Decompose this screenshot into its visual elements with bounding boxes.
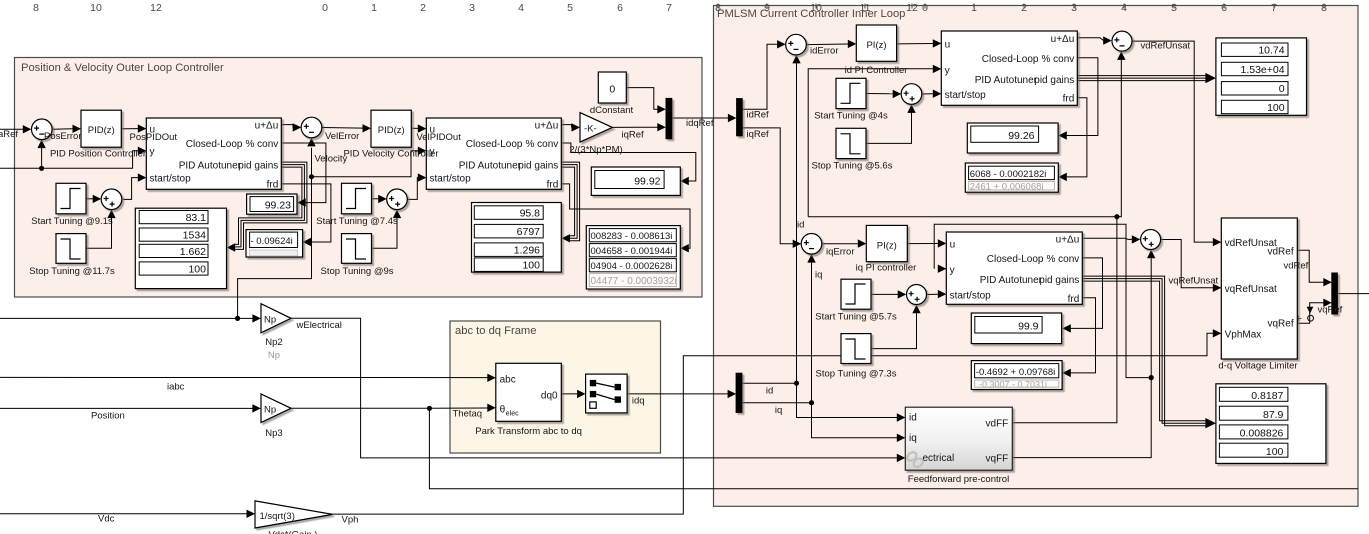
wire vdFF net to Sum7 and Autotuner3 y branch: [808, 51, 1125, 422]
block PID Autotuner 4: [946, 232, 1082, 305]
svg-text:1.662: 1.662: [180, 246, 206, 258]
svg-text:VphMax: VphMax: [1225, 329, 1262, 340]
svg-text:008283 - 0.008613i: 008283 - 0.008613i: [591, 231, 673, 242]
svg-text:aRef: aRef: [0, 129, 18, 140]
sum Sum9 vq: [1141, 230, 1161, 250]
svg-text:1.53e+04: 1.53e+04: [1241, 64, 1285, 76]
wire Sum6 to Autotuner3 start/stop: [922, 90, 942, 98]
wire Autotuner3 y input: [808, 65, 941, 217]
wire Thetaq Np3 to Park Transform: [291, 404, 496, 412]
display PID gains 2: [472, 203, 562, 273]
svg-text:0: 0: [609, 84, 615, 96]
wire wElectrical Np2 to Feedforward: [291, 318, 905, 462]
svg-text:Position & Velocity Outer Loop: Position & Velocity Outer Loop Controlle…: [21, 62, 224, 74]
svg-text:id PI Controller: id PI Controller: [845, 65, 908, 76]
svg-text:4: 4: [518, 2, 524, 14]
svg-text:vqRef: vqRef: [1267, 318, 1293, 329]
svg-text:1/sqrt(3): 1/sqrt(3): [260, 511, 295, 522]
svg-text:7: 7: [666, 2, 672, 14]
svg-text:Np2: Np2: [265, 337, 282, 348]
display PID gains 1: [135, 208, 226, 288]
svg-text:idRef: idRef: [747, 110, 770, 121]
svg-text:pid gains: pid gains: [518, 161, 558, 172]
svg-text:VelPIDOut: VelPIDOut: [417, 132, 462, 143]
wire PID Position Controller to Autotuner1 u: [121, 124, 146, 132]
svg-text:Stop Tuning @9s: Stop Tuning @9s: [320, 266, 393, 277]
svg-text:vdFF: vdFF: [986, 418, 1009, 429]
svg-text:95.8: 95.8: [520, 208, 541, 220]
step StartTuning9.1: [56, 183, 86, 214]
demux Demux1: [737, 99, 743, 136]
svg-text:0: 0: [1279, 83, 1285, 95]
svg-text:6: 6: [617, 2, 623, 14]
svg-text:PosPIDOut: PosPIDOut: [130, 132, 178, 143]
wire StopTuning11.7 to Sum3: [86, 210, 116, 249]
svg-text:Stop Tuning @5.6s: Stop Tuning @5.6s: [812, 161, 893, 172]
wire vqRef Limiter to Mux2: [1296, 299, 1332, 325]
display vd gains: [1216, 38, 1307, 115]
wire Autotuner1 pid gains bus to Display gains1: [227, 162, 307, 252]
svg-text:vqRefUnsat: vqRefUnsat: [1225, 284, 1277, 295]
svg-text:vdRef: vdRef: [1284, 261, 1309, 272]
svg-text:83.1: 83.1: [186, 212, 207, 224]
svg-text:idError: idError: [810, 46, 839, 57]
svg-text:y: y: [945, 65, 950, 76]
svg-text:5: 5: [567, 2, 573, 14]
wire Sum1 to PID Position Controller: [52, 125, 81, 133]
svg-text:-0.4692 + 0.09768i: -0.4692 + 0.09768i: [976, 367, 1056, 378]
step StartTuning4: [836, 78, 866, 108]
svg-text:y: y: [950, 265, 955, 276]
svg-text:3: 3: [469, 2, 475, 14]
block id PI Controller PI(z): [856, 25, 896, 61]
svg-text:Feedforward pre-control: Feedforward pre-control: [908, 474, 1009, 485]
wire Autotuner4 u+du to Sum9: [1082, 235, 1140, 243]
wire Mux2 output to edge: [1337, 293, 1369, 295]
wire Position input to Np3: [0, 404, 261, 412]
display frd 0.09624i: [246, 230, 303, 257]
svg-text:04904 - 0.0002628i: 04904 - 0.0002628i: [591, 261, 673, 272]
svg-text:idq: idq: [632, 396, 645, 407]
svg-text:elec: elec: [506, 411, 519, 418]
svg-text:PID Position Controller: PID Position Controller: [50, 149, 146, 160]
wire Velocity input to Np2: [0, 314, 261, 322]
svg-text:iqRef: iqRef: [747, 129, 770, 140]
svg-text:% conv: % conv: [246, 139, 279, 150]
svg-text:Start Tuning @4s: Start Tuning @4s: [814, 111, 888, 122]
wire StopTuning7.3 to Sum8: [871, 305, 921, 349]
svg-text:0.008826: 0.008826: [1240, 428, 1284, 440]
svg-text:frd: frd: [547, 180, 559, 191]
svg-text:frd: frd: [1063, 94, 1075, 105]
svg-text:start/stop: start/stop: [950, 290, 992, 301]
svg-text:87.9: 87.9: [1263, 409, 1284, 421]
display frd2 complex: [586, 226, 680, 289]
svg-text:Np: Np: [268, 350, 280, 361]
svg-text:id: id: [766, 385, 773, 396]
svg-text:iq: iq: [815, 270, 822, 281]
wire StartTuning4 to Sum6: [866, 90, 901, 98]
sum Sum8 start/stop 4: [907, 285, 927, 305]
svg-text:Park Transform abc to dq: Park Transform abc to dq: [475, 426, 582, 437]
svg-text:start/stop: start/stop: [150, 174, 192, 185]
svg-text:y: y: [150, 147, 155, 158]
wire Autotuner2 pid gains bus to Display gains2: [561, 162, 579, 242]
svg-text:% conv: % conv: [1047, 254, 1080, 265]
svg-text:PID Velocity Controller: PID Velocity Controller: [343, 149, 438, 160]
ruler numbers top: [33, 2, 1327, 14]
display 99.9: [971, 313, 1061, 344]
wire Autotuner4 frd to Display frd4: [1062, 298, 1095, 377]
display vq gains: [1216, 384, 1326, 464]
svg-text:Np: Np: [264, 315, 276, 326]
display frd3 complex: [965, 163, 1058, 193]
sum Sum3 start/stop 1: [101, 189, 122, 210]
wire Sum4 to Autotuner2 start/stop: [407, 173, 426, 199]
gain Np2: [261, 304, 291, 333]
wire Autotuner3 frd to Display frd3: [1058, 98, 1087, 181]
wire Sum2 to PID Velocity Controller: [322, 124, 371, 132]
svg-text:iabc: iabc: [167, 382, 185, 393]
svg-text:abc: abc: [500, 374, 516, 385]
svg-text:Closed-Loop: Closed-Loop: [186, 139, 243, 150]
svg-text:u+Δu: u+Δu: [255, 121, 279, 132]
mux Mux1: [666, 98, 672, 138]
wire vqFF net riser to Sum9: [1012, 250, 1155, 458]
wire StopTuning5.6 to Sum6: [866, 104, 916, 143]
wire id measurement riser to Sum5: [792, 55, 800, 386]
gain Np3: [261, 394, 291, 423]
svg-text:100: 100: [1267, 102, 1285, 114]
display 99.23: [247, 194, 297, 214]
svg-text:Closed-Loop: Closed-Loop: [466, 139, 523, 150]
demux Demux2: [736, 373, 742, 412]
svg-text:PI(z): PI(z): [866, 40, 886, 51]
svg-text:pid gains: pid gains: [1034, 75, 1074, 86]
svg-text:% conv: % conv: [1042, 54, 1075, 65]
svg-text:idqRef: idqRef: [686, 118, 714, 129]
svg-text:iqError: iqError: [826, 247, 855, 258]
wire iq PI controller to Autotuner4 u: [907, 239, 946, 247]
svg-text:99.92: 99.92: [634, 176, 660, 188]
svg-text:-K-: -K-: [584, 123, 597, 134]
svg-text:1: 1: [371, 2, 377, 14]
panel area PMLSM Current Controller Inner Loop: [714, 6, 1359, 507]
svg-text:100: 100: [522, 260, 540, 272]
svg-text:99.9: 99.9: [1018, 321, 1039, 333]
panel area Position and Velocity Outer Loop Controller: [15, 58, 703, 298]
svg-text:PID Autotuner: PID Autotuner: [459, 161, 522, 172]
svg-text:2461 + 0.006068i: 2461 + 0.006068i: [970, 182, 1044, 193]
svg-text:id: id: [797, 219, 804, 230]
svg-text:pid gains: pid gains: [1039, 275, 1079, 286]
wire Autotuner1 frd to Display frd1: [281, 184, 331, 246]
svg-text:vqRefUnsat: vqRefUnsat: [1169, 276, 1219, 287]
svg-text:PosError: PosError: [44, 131, 81, 142]
sum Sum7 vd: [1112, 31, 1132, 51]
svg-text:Thetaq: Thetaq: [453, 408, 483, 419]
wire Vdc input to Gain 1/sqrt(3): [0, 510, 255, 518]
svg-text:start/stop: start/stop: [430, 174, 472, 185]
svg-text:0: 0: [322, 2, 328, 14]
wire Vph to Limiter VphMax: [333, 329, 1222, 514]
wire StopTuning9 to Sum4: [372, 210, 402, 249]
svg-text:PID(z): PID(z): [88, 125, 115, 136]
svg-text:Stop Tuning @11.7s: Stop Tuning @11.7s: [29, 266, 115, 277]
svg-text:u+Δu: u+Δu: [535, 121, 559, 132]
wire Autotuner3 u+du to Sum7: [1077, 36, 1111, 44]
svg-text:frd: frd: [1068, 294, 1080, 305]
wire Autotuner2 frd to Display frd2: [561, 184, 690, 253]
wire Autotuner2 pcconv to Display 99.92: [561, 143, 696, 185]
svg-text:99.23: 99.23: [265, 199, 291, 211]
svg-text:vqRef: vqRef: [1318, 305, 1343, 316]
svg-text:6797: 6797: [517, 226, 541, 238]
sum Sum4 start/stop 2: [387, 189, 408, 210]
svg-text:2: 2: [420, 2, 426, 14]
svg-text:Closed-Loop: Closed-Loop: [982, 54, 1039, 65]
wire StartTuning9.1 to Sum3: [86, 195, 101, 203]
svg-text:Np: Np: [264, 405, 276, 416]
wire dq0 Park to Selector: [561, 390, 585, 398]
wire Gain -K- to Mux1: [612, 123, 665, 131]
svg-text:id: id: [909, 413, 917, 424]
svg-text:Vph: Vph: [342, 515, 359, 526]
svg-text:004658 - 0.001944i: 004658 - 0.001944i: [591, 246, 673, 257]
svg-text:8: 8: [33, 2, 39, 14]
sum Sum5 idError: [786, 34, 807, 55]
wire Autotuner3 pid gains bus to Display gains3: [1077, 73, 1216, 83]
svg-text:- 0.09624i: - 0.09624i: [251, 236, 293, 247]
svg-text:Start Tuning @7.4s: Start Tuning @7.4s: [316, 216, 398, 227]
block dConstant: [598, 72, 626, 103]
svg-text:1.296: 1.296: [514, 245, 540, 257]
svg-text:iq PI controller: iq PI controller: [856, 263, 917, 274]
block Park Transform abc to dq: [496, 363, 562, 421]
svg-text:PID Autotuner: PID Autotuner: [179, 161, 242, 172]
svg-text:PID Autotuner: PID Autotuner: [975, 75, 1038, 86]
svg-text:10: 10: [90, 2, 102, 14]
wire Sum5 to id PI Controller: [806, 40, 856, 48]
sum Sum10 iqError: [801, 234, 822, 255]
svg-text:VelError: VelError: [325, 131, 359, 142]
step StopTuning5.6: [836, 128, 866, 158]
block Feedforward pre-control: [905, 407, 1012, 470]
svg-text:6068 - 0.0002182i: 6068 - 0.0002182i: [970, 169, 1047, 180]
wire dConstant to Mux1: [626, 88, 666, 114]
display 99.92: [591, 167, 680, 195]
ruler tick marks: [718, 4, 1324, 9]
svg-text:100: 100: [1266, 446, 1284, 458]
svg-text:dConstant: dConstant: [590, 105, 634, 116]
panel area abc to dq Frame: [450, 321, 661, 453]
svg-text:Vdc: Vdc: [98, 514, 115, 525]
svg-text:ectrical: ectrical: [923, 453, 955, 464]
svg-text:Start Tuning @9.1s: Start Tuning @9.1s: [31, 216, 113, 227]
step StopTuning9: [342, 234, 372, 264]
wire PID Velocity Controller to Autotuner2 u: [411, 124, 426, 132]
svg-text:vqFF: vqFF: [986, 453, 1009, 464]
svg-text:Start Tuning @5.7s: Start Tuning @5.7s: [815, 311, 897, 322]
svg-text:u+Δu: u+Δu: [1051, 34, 1075, 45]
svg-text:u+Δu: u+Δu: [1056, 234, 1080, 245]
block PID(z) position: [81, 110, 121, 147]
block PID Autotuner 3: [941, 31, 1077, 105]
wire Autotuner4 pcconv to Display 99.9: [1062, 258, 1102, 333]
svg-text:pid gains: pid gains: [238, 161, 278, 172]
svg-text:Closed-Loop: Closed-Loop: [987, 254, 1044, 265]
svg-text:iq: iq: [909, 433, 917, 444]
svg-text:1534: 1534: [183, 230, 207, 242]
svg-text:-0.3007 - 0.7031i: -0.3007 - 0.7031i: [979, 380, 1047, 390]
svg-text:0.8187: 0.8187: [1251, 390, 1283, 402]
svg-text:99.26: 99.26: [1008, 130, 1034, 142]
wire idq Selector to Demux2: [627, 390, 736, 398]
block d-q Voltage Limiter: [1221, 218, 1297, 359]
svg-text:dq0: dq0: [541, 390, 558, 401]
wire Theta branch long to right edge: [429, 408, 1358, 488]
wire iabc to Park Transform: [0, 374, 496, 382]
svg-text:10.74: 10.74: [1258, 45, 1284, 57]
svg-text:start/stop: start/stop: [945, 90, 987, 101]
display 99.26: [967, 123, 1058, 153]
svg-text:θ: θ: [500, 404, 506, 415]
step StopTuning7.3: [841, 334, 871, 364]
wire id Demux2 to junction and Feedforward: [742, 383, 905, 421]
wire Position feedback net: [0, 140, 146, 171]
wire ThetaRef input to Sum1: [0, 125, 31, 133]
block PID Autotuner 2: [426, 118, 561, 191]
wire vdRef Limiter to Mux2: [1297, 250, 1332, 286]
sum Sum6 start/stop 3: [901, 84, 922, 105]
sum Sum1 PosError: [32, 119, 53, 140]
svg-text:12: 12: [150, 2, 162, 14]
wire Sum8 to Autotuner4 start/stop: [927, 290, 947, 298]
wire Sum3 to Autotuner1 start/stop: [123, 173, 146, 199]
wire iq Demux2 to junction and Feedforward: [742, 403, 905, 442]
wire Autotuner1 u+du to Sum2: [281, 123, 301, 131]
wire iq measurement riser to Sum10: [807, 254, 815, 405]
wire StartTuning7.4 to Sum4: [372, 195, 387, 203]
svg-text:Np3: Np3: [265, 428, 282, 439]
svg-text:u: u: [945, 39, 951, 50]
svg-text:PID Autotuner: PID Autotuner: [980, 275, 1043, 286]
block PID(z) velocity: [371, 110, 411, 147]
svg-text:Position: Position: [91, 411, 125, 422]
wire iqRef Demux1 to Sum10: [742, 128, 801, 248]
step StopTuning11.7: [56, 234, 86, 264]
svg-text:PI(z): PI(z): [877, 241, 897, 252]
wire Autotuner1 pcconv to Display 99.23: [281, 143, 326, 207]
block Selector: [586, 374, 628, 413]
mux Mux2: [1332, 273, 1338, 314]
svg-text:vdRef: vdRef: [1267, 246, 1293, 257]
svg-text:Vdc*(Gain ): Vdc*(Gain ): [268, 530, 317, 534]
wire id PI Controller to Autotuner3 u: [897, 39, 942, 47]
block iq PI controller PI(z): [866, 225, 907, 261]
svg-text:Stop Tuning @7.3s: Stop Tuning @7.3s: [816, 369, 897, 380]
wire Autotuner4 pid gains bus to Display gains4: [1082, 276, 1216, 428]
wire idqRef Mux1 to Demux1: [671, 114, 736, 122]
wire Sum10 to iq PI controller: [822, 239, 867, 247]
sum Sum2 VelError: [301, 117, 322, 138]
svg-text:frd: frd: [267, 180, 279, 191]
block PID Autotuner 1: [146, 118, 281, 191]
svg-text:PID(z): PID(z): [378, 125, 405, 136]
svg-text:% conv: % conv: [526, 139, 559, 150]
svg-text:u: u: [950, 240, 956, 251]
gain -K-: [580, 113, 612, 143]
wire vdRefUnsat Sum7 to Limiter: [1132, 41, 1221, 246]
svg-text:vdRefUnsat: vdRefUnsat: [1141, 40, 1191, 51]
svg-text:d-q Voltage Limiter: d-q Voltage Limiter: [1218, 360, 1297, 371]
svg-text:iq: iq: [775, 405, 782, 416]
display frd4 complex: [971, 361, 1062, 390]
wire Velocity feedback net: [238, 138, 427, 319]
wire Autotuner4 y input net: [934, 224, 1154, 380]
wire Autotuner3 pcconv to Display 99.26: [1058, 58, 1098, 140]
step StartTuning5.7: [841, 279, 871, 309]
gain 1/sqrt(3): [255, 501, 333, 528]
svg-text:2/(3*Np*PM): 2/(3*Np*PM): [569, 145, 622, 156]
svg-text:wElectrical: wElectrical: [296, 320, 342, 331]
wire vqRefUnsat Sum9 to Limiter: [1161, 240, 1221, 292]
wire StartTuning5.7 to Sum8: [871, 290, 906, 298]
svg-text:100: 100: [188, 264, 206, 276]
svg-text:iqRef: iqRef: [622, 130, 645, 141]
svg-text:abc to dq Frame: abc to dq Frame: [455, 325, 536, 337]
svg-text:04477 - 0.0003932i: 04477 - 0.0003932i: [591, 276, 677, 287]
wire idRef Demux1 to Sum5: [742, 40, 785, 109]
wire Autotuner2 u+du to Gain -K-: [561, 123, 580, 131]
step StartTuning7.4: [342, 183, 372, 214]
